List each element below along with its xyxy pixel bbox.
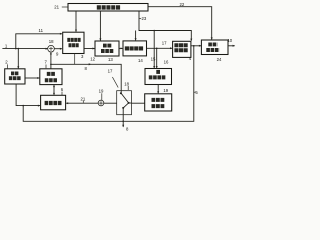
svg-text:18: 18: [124, 81, 129, 86]
label 13: [108, 57, 113, 62]
wire through switch to adder and frame memory: [66, 102, 132, 104]
label 17: [162, 40, 167, 45]
wire VLC to buffer: [191, 45, 202, 47]
box U4 可变长编码器: [173, 41, 191, 57]
label 23: [139, 16, 147, 21]
wire ctrl rake 23: [135, 11, 193, 41]
wire ctrl right to buffer top 22: [148, 7, 213, 40]
box U-ctrl 编码控制器: [68, 4, 148, 12]
wire subtractor to mode box: [54, 48, 62, 50]
wire motion detector down to frame memory: [16, 84, 40, 107]
svg-text:19: 19: [99, 89, 104, 94]
wire ctrl to transformer top: [99, 11, 101, 41]
svg-text:21: 21: [81, 96, 86, 101]
label 16: [164, 60, 169, 65]
label 18: [49, 39, 54, 44]
label 11: [39, 28, 44, 33]
label 18 switch leader: [108, 69, 119, 88]
label 8: [126, 127, 129, 132]
wire buffer output 10: [228, 45, 235, 47]
wire compensator to frame memory double arrow: [53, 85, 55, 96]
label 22: [180, 2, 185, 7]
box U6 帧存储器: [41, 95, 66, 110]
box U24 发送缓冲器: [201, 40, 228, 55]
wire mode box to transformer: [84, 48, 95, 50]
svg-text:14: 14: [138, 58, 143, 63]
wire quantizer to VLC: [147, 47, 173, 49]
wire 11 to mode box: [16, 33, 63, 49]
box U20 逆正交变换器: [145, 94, 172, 111]
label 16: [151, 57, 156, 62]
svg-text:15: 15: [151, 57, 156, 62]
label 9: [56, 51, 59, 56]
wire inverse transformer out to switch: [132, 102, 145, 104]
label 1: [5, 44, 8, 49]
box U13 正交变换器: [95, 41, 119, 56]
svg-text:16: 16: [164, 60, 169, 65]
wire prediction line to switch: [51, 63, 121, 92]
wire quantizer down to inverse quantizer: [156, 48, 158, 68]
label 8a: [85, 66, 88, 71]
box U14 量子化器: [123, 41, 147, 56]
wire input down to motion detector: [17, 49, 19, 69]
label 5: [194, 90, 198, 95]
wire input 1: [2, 48, 48, 50]
label 10: [227, 38, 232, 43]
label 19: [99, 89, 104, 100]
wire motion detector to compensator: [25, 77, 40, 79]
label 6: [61, 87, 64, 95]
label 2: [5, 60, 8, 69]
label 3: [81, 54, 84, 59]
label 4: [189, 56, 192, 61]
label 24: [217, 57, 222, 62]
wire rake down to inverse quantizer: [153, 31, 155, 69]
box U7 运动补偿器: [40, 69, 62, 85]
svg-text:17: 17: [108, 69, 113, 74]
wire inverse quantizer to inverse transformer: [157, 85, 159, 94]
label 18 switch: [124, 81, 129, 90]
svg-text:13: 13: [108, 57, 113, 62]
wire transformer to quantizer: [119, 48, 123, 50]
svg-text:12: 12: [90, 57, 95, 62]
wire bottom feedback loop 5: [23, 46, 194, 122]
label 21 on line: [81, 96, 86, 102]
box U3 编码模式判定器: [63, 32, 84, 53]
label 12: [90, 57, 95, 62]
svg-text:10: 10: [227, 38, 232, 43]
svg-text:19: 19: [163, 88, 168, 93]
svg-text:22: 22: [180, 2, 185, 7]
svg-text:17: 17: [162, 40, 167, 45]
wire switch output down 8: [122, 108, 124, 128]
svg-text:21: 21: [54, 5, 59, 10]
adder circle 19: [98, 100, 104, 106]
box U16 逆量子化器: [145, 69, 172, 85]
label 19b: [163, 88, 168, 93]
svg-text:23: 23: [142, 16, 147, 21]
label 14: [138, 58, 143, 63]
subtractor circle: [48, 45, 55, 52]
wire mode box bottom tick: [74, 54, 76, 65]
wire ctrl to mode box top: [75, 11, 77, 32]
wire prediction from compensator up to subtractor 9: [50, 52, 52, 69]
box U2 运动检测器: [5, 69, 25, 84]
svg-text:24: 24: [217, 57, 222, 62]
svg-text:18: 18: [49, 39, 54, 44]
label 21: [54, 5, 68, 10]
label 7: [45, 60, 48, 69]
switch S box: [117, 91, 132, 115]
svg-text:11: 11: [39, 28, 44, 33]
